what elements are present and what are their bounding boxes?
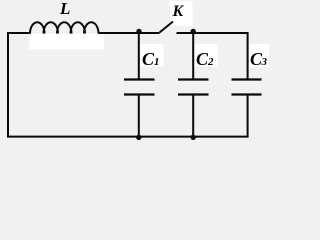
svg-text:2: 2 [207, 56, 214, 68]
svg-text:3: 3 [261, 56, 268, 68]
svg-text:1: 1 [154, 56, 160, 68]
svg-text:L: L [59, 0, 70, 18]
svg-text:K: K [172, 3, 185, 20]
